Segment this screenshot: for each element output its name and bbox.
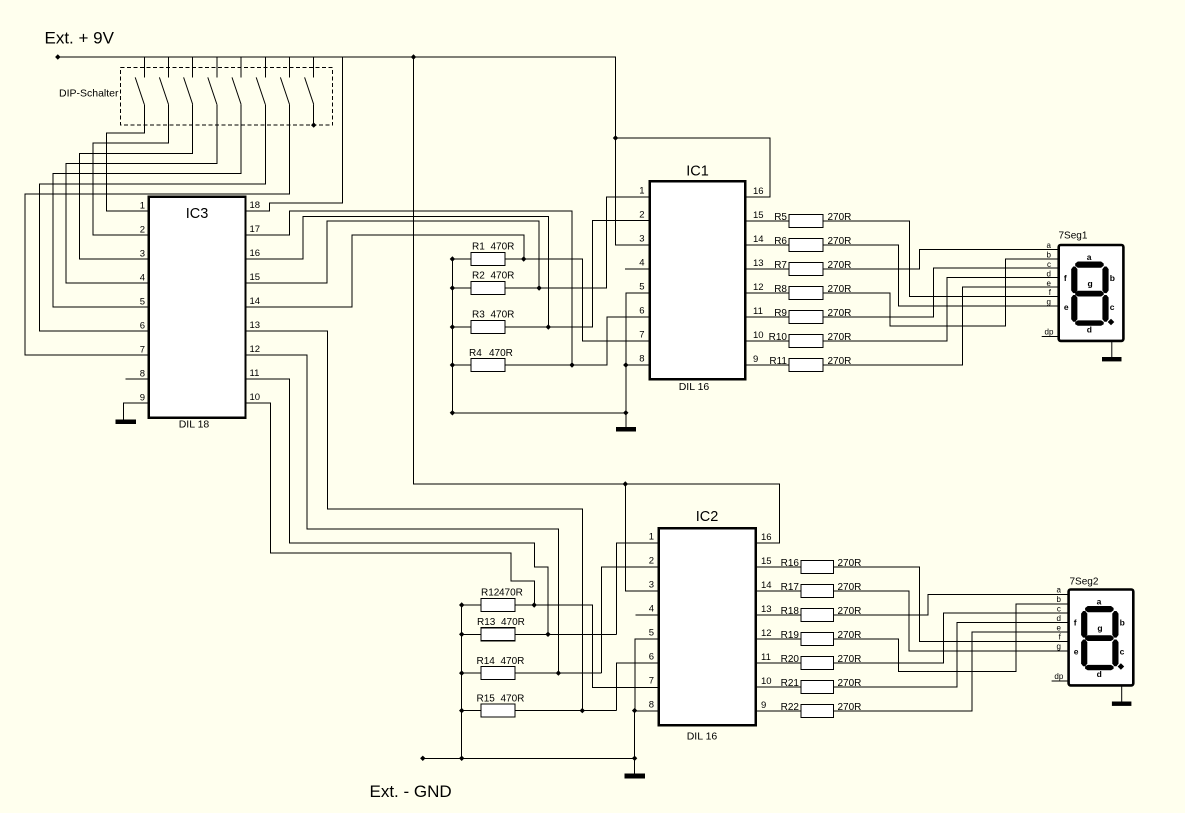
svg-text:15: 15: [250, 272, 261, 283]
svg-text:R6: R6: [774, 236, 787, 247]
svg-text:7: 7: [649, 676, 654, 687]
svg-text:14: 14: [761, 580, 772, 591]
svg-text:7: 7: [639, 330, 644, 341]
svg-text:DIL 16: DIL 16: [687, 731, 718, 743]
svg-text:Ext. - GND: Ext. - GND: [370, 782, 452, 801]
svg-text:R13: R13: [477, 617, 496, 628]
svg-text:IC2: IC2: [696, 509, 719, 525]
svg-text:1: 1: [140, 201, 145, 212]
svg-text:5: 5: [649, 628, 654, 639]
svg-text:R10: R10: [769, 332, 788, 343]
svg-text:13: 13: [250, 320, 261, 331]
svg-text:270R: 270R: [828, 356, 852, 367]
svg-text:5: 5: [639, 282, 644, 293]
svg-text:R18: R18: [781, 606, 800, 617]
svg-text:270R: 270R: [828, 260, 852, 271]
svg-text:4: 4: [140, 273, 145, 284]
svg-text:10: 10: [250, 392, 261, 403]
svg-text:14: 14: [250, 296, 261, 307]
svg-text:6: 6: [639, 306, 644, 317]
svg-text:1: 1: [649, 532, 654, 543]
svg-text:470R: 470R: [501, 656, 525, 667]
svg-text:R22: R22: [781, 702, 800, 713]
svg-text:R19: R19: [781, 630, 800, 641]
svg-text:18: 18: [250, 200, 261, 211]
svg-text:11: 11: [761, 652, 771, 663]
svg-text:270R: 270R: [838, 678, 862, 689]
svg-text:10: 10: [753, 330, 764, 341]
svg-text:DIL 18: DIL 18: [179, 419, 210, 431]
svg-text:470R: 470R: [491, 271, 515, 282]
svg-text:13: 13: [761, 604, 772, 615]
svg-text:6: 6: [140, 321, 145, 332]
svg-text:16: 16: [761, 532, 772, 543]
svg-text:270R: 270R: [828, 212, 852, 223]
svg-text:R7: R7: [774, 260, 787, 271]
svg-text:9: 9: [753, 354, 758, 365]
svg-text:6: 6: [649, 652, 654, 663]
svg-text:3: 3: [639, 234, 644, 245]
svg-text:470R: 470R: [499, 588, 523, 599]
svg-text:R11: R11: [769, 356, 787, 367]
svg-text:270R: 270R: [838, 702, 862, 713]
svg-text:3: 3: [140, 249, 145, 260]
svg-text:11: 11: [250, 368, 260, 379]
svg-text:R3: R3: [472, 310, 485, 321]
svg-text:R1: R1: [472, 242, 485, 253]
svg-text:R14: R14: [477, 656, 496, 667]
svg-text:270R: 270R: [828, 236, 852, 247]
svg-text:270R: 270R: [828, 308, 852, 319]
svg-text:4: 4: [649, 604, 654, 615]
svg-text:10: 10: [761, 676, 772, 687]
svg-text:3: 3: [649, 580, 654, 591]
svg-text:12: 12: [753, 282, 764, 293]
svg-text:9: 9: [761, 700, 766, 711]
svg-text:270R: 270R: [828, 332, 852, 343]
svg-text:2: 2: [639, 210, 644, 221]
svg-text:DIL 16: DIL 16: [679, 381, 710, 393]
svg-text:470R: 470R: [491, 242, 515, 253]
svg-text:270R: 270R: [828, 284, 852, 295]
svg-text:270R: 270R: [838, 558, 862, 569]
svg-text:17: 17: [250, 224, 261, 235]
svg-text:R20: R20: [781, 654, 800, 665]
svg-text:470R: 470R: [501, 694, 525, 705]
svg-text:R8: R8: [774, 284, 787, 295]
svg-text:4: 4: [639, 258, 644, 269]
svg-text:270R: 270R: [838, 630, 862, 641]
svg-text:14: 14: [753, 234, 764, 245]
svg-text:16: 16: [250, 248, 261, 259]
svg-text:12: 12: [250, 344, 261, 355]
svg-text:270R: 270R: [838, 606, 862, 617]
svg-text:R5: R5: [774, 212, 787, 223]
svg-text:8: 8: [140, 369, 145, 380]
svg-text:16: 16: [753, 186, 764, 197]
svg-text:IC3: IC3: [186, 206, 209, 222]
svg-text:15: 15: [761, 556, 772, 567]
svg-text:9: 9: [140, 393, 145, 404]
svg-text:R16: R16: [781, 558, 800, 569]
svg-text:5: 5: [140, 297, 145, 308]
svg-text:R15: R15: [477, 694, 496, 705]
svg-text:7Seg1: 7Seg1: [1059, 231, 1088, 242]
svg-text:470R: 470R: [501, 617, 525, 628]
svg-text:R12: R12: [481, 588, 500, 599]
svg-text:2: 2: [649, 556, 654, 567]
svg-text:470R: 470R: [491, 310, 515, 321]
svg-text:11: 11: [753, 306, 763, 317]
svg-text:R2: R2: [472, 271, 485, 282]
svg-text:2: 2: [140, 225, 145, 236]
svg-text:7Seg2: 7Seg2: [1070, 577, 1099, 588]
svg-text:12: 12: [761, 628, 772, 639]
svg-text:7: 7: [140, 345, 145, 356]
svg-text:1: 1: [639, 186, 644, 197]
svg-text:470R: 470R: [489, 348, 513, 359]
svg-text:13: 13: [753, 258, 764, 269]
svg-text:DIP-Schalter: DIP-Schalter: [59, 88, 119, 100]
svg-text:15: 15: [753, 210, 764, 221]
svg-text:IC1: IC1: [686, 164, 709, 180]
svg-text:R9: R9: [774, 308, 787, 319]
svg-text:270R: 270R: [838, 582, 862, 593]
svg-text:R4: R4: [469, 348, 482, 359]
svg-text:270R: 270R: [838, 654, 862, 665]
svg-text:Ext. + 9V: Ext. + 9V: [45, 29, 115, 48]
svg-text:8: 8: [649, 700, 654, 711]
svg-text:R21: R21: [781, 678, 800, 689]
svg-text:8: 8: [639, 354, 644, 365]
svg-text:R17: R17: [781, 582, 800, 593]
